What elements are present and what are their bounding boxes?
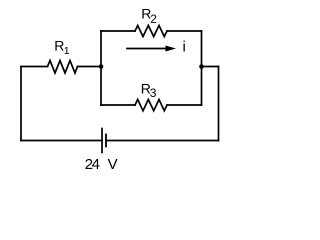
wire parallel-box left vertical <box>100 31 102 105</box>
node A junction dot <box>99 64 104 69</box>
wire left to R1 <box>21 66 48 68</box>
resistor R1 <box>48 61 78 74</box>
current arrow shaft <box>127 48 167 50</box>
wire top branch left <box>101 30 135 32</box>
current arrow head <box>166 46 177 52</box>
label R3 <box>141 81 157 100</box>
wire bottom branch right <box>167 104 202 106</box>
node B junction dot <box>199 64 204 69</box>
label R2 <box>141 5 157 26</box>
wire bottom right (battery to right corner) <box>106 140 219 142</box>
resistor R3 <box>135 100 167 111</box>
svg-text:1: 1 <box>64 45 70 57</box>
wire parallel-box right vertical <box>201 31 203 105</box>
wire bottom branch left <box>101 104 135 106</box>
battery 24 V <box>102 129 106 153</box>
svg-text:i: i <box>183 39 186 56</box>
label R1 <box>54 38 70 57</box>
wire R1 to node A <box>78 66 102 68</box>
wire top branch right <box>167 30 202 32</box>
svg-text:2: 2 <box>150 12 157 26</box>
wire bottom left (to battery) <box>21 140 102 142</box>
svg-text:V: V <box>108 156 118 173</box>
wire right vertical <box>218 67 220 141</box>
wire stub node B to right vertical <box>202 66 219 68</box>
resistor R2 <box>135 26 167 37</box>
svg-text:3: 3 <box>150 86 157 100</box>
svg-text:4: 4 <box>92 156 100 173</box>
wire left vertical <box>20 67 22 141</box>
